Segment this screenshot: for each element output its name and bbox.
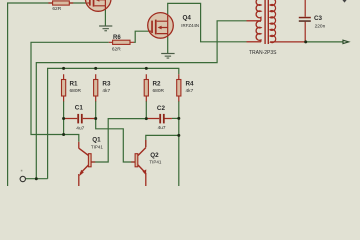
wire: R4 net vertical to bottom edge [178, 101, 180, 186]
svg-text:R1: R1 [70, 81, 79, 88]
svg-text:R4: R4 [186, 81, 195, 88]
resistor R3 4k7 [94, 74, 98, 101]
wire: C2 right to R4 net [172, 117, 179, 119]
transistor Q2 TIP41 (NPN) [131, 140, 146, 186]
terminal P1 (input, open circle) [20, 170, 25, 182]
wire: top rail from 62R to gate of top MOSFET [69, 2, 87, 4]
wire: R6 right to Q4 gate [134, 31, 149, 42]
svg-text:Q1: Q1 [92, 137, 101, 144]
wire: R2 bottom lead [145, 101, 147, 119]
MOSFET Q5 (top, label cut off) [85, 0, 111, 11]
svg-text:62R: 62R [52, 6, 61, 12]
svg-text:4k7: 4k7 [186, 88, 194, 94]
wire: supply rail to transformer primary mid pin [36, 21, 246, 179]
svg-text:4k7: 4k7 [102, 88, 110, 94]
wire: top MOSFET source to ground [104, 9, 106, 26]
wire: secondary output to arrow terminal [306, 41, 343, 43]
wire: Q1 base cross-couple to R2/C2 node [91, 119, 146, 162]
svg-text:680R: 680R [153, 88, 165, 94]
resistor R2 680R [144, 74, 148, 101]
resistor R1 680R [62, 74, 66, 101]
svg-text:TIP41: TIP41 [149, 160, 162, 165]
resistor R6 62R (horizontal) [109, 40, 134, 44]
wire: R3 bottom cross-couple to Q2 base [96, 101, 135, 162]
wire: Q4 source to ground [167, 36, 169, 53]
svg-text:4u7: 4u7 [158, 125, 166, 131]
ground (below Q4) [161, 53, 174, 59]
svg-text:680R: 680R [70, 88, 82, 94]
svg-text:R3: R3 [102, 81, 111, 88]
svg-text:4u7: 4u7 [76, 126, 84, 132]
svg-text:TIP41: TIP41 [91, 144, 104, 149]
wire: top rail left + left edge vertical [8, 3, 53, 186]
svg-text:TRAN-2P3S: TRAN-2P3S [249, 50, 277, 56]
transformer TR1 TRAN-2P3S [247, 0, 305, 44]
MOSFET Q4 IRFZ44N [148, 13, 174, 39]
capacitor C1 4u7 [64, 114, 94, 124]
resistor R4 4k7 [177, 74, 181, 101]
terminal (output arrow right) [343, 40, 349, 43]
resistor R5 62R (top left, name cut off) [48, 1, 73, 5]
svg-text:C1: C1 [75, 105, 84, 112]
capacitor C2 4u7 [147, 114, 172, 124]
svg-text:R2: R2 [153, 81, 162, 88]
svg-text:IRFZ44N: IRFZ44N [181, 23, 199, 28]
wire: R1 bottom to C1 node [63, 101, 65, 135]
transistor Q1 TIP41 (mirrored NPN) [79, 142, 95, 186]
wire: supply rail to resistor tops [48, 68, 179, 178]
svg-text:Q2: Q2 [150, 152, 159, 159]
wire: Q2 collector to R4 net [146, 135, 179, 147]
wire: Q4 drain to transformer primary bottom pin [168, 3, 247, 41]
svg-text:220n: 220n [315, 23, 326, 29]
svg-text:Q4: Q4 [183, 15, 192, 22]
svg-text:62R: 62R [112, 47, 121, 53]
terminal mark (top right, cut off) [342, 0, 346, 3]
svg-text:R6: R6 [113, 35, 121, 41]
svg-text:C3: C3 [314, 15, 323, 22]
wire: R6 net from feedback node to R6 left [31, 42, 109, 142]
ground (below top MOSFET) [99, 25, 112, 31]
wire: bottom supply from input terminal [26, 178, 48, 180]
svg-text:C2: C2 [157, 105, 166, 112]
capacitor C3 220n [299, 0, 311, 42]
